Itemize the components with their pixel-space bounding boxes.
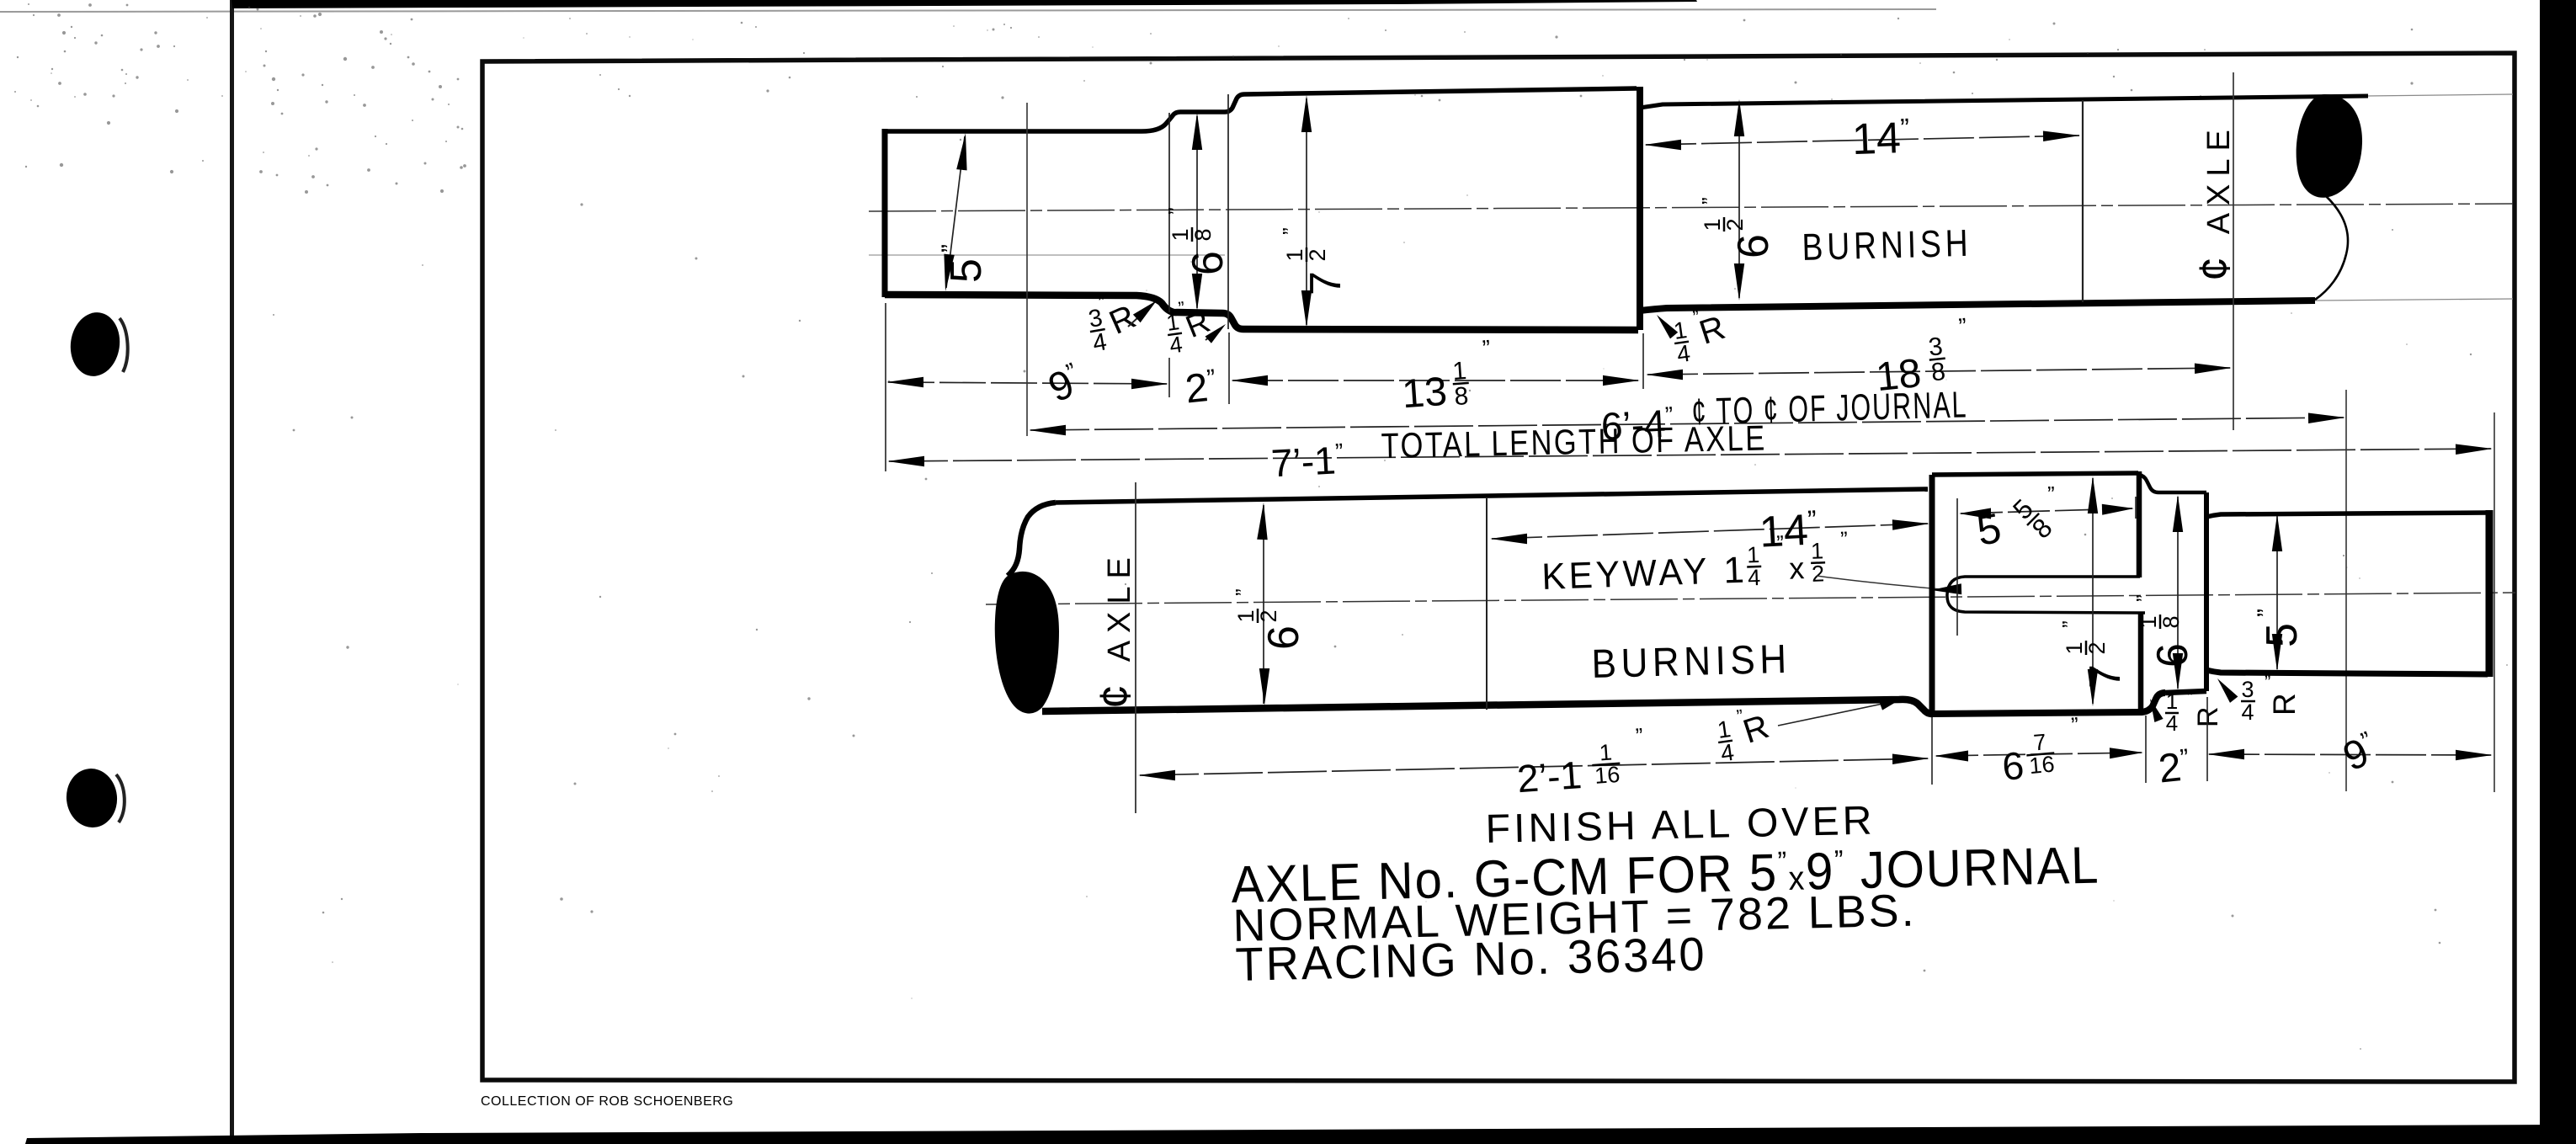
svg-text:2: 2 xyxy=(1305,248,1330,261)
svg-text:”: ” xyxy=(1231,588,1256,596)
dim 13 1/8 wheel seat v1 xyxy=(1231,335,1640,417)
svg-text:R: R xyxy=(2267,693,2302,716)
svg-text:”: ” xyxy=(2057,620,2083,628)
svg-text:8: 8 xyxy=(1453,382,1469,411)
svg-text:KEYWAY: KEYWAY xyxy=(1541,551,1711,598)
extension tick collar right v2 xyxy=(2206,697,2208,781)
view2 journal right end face xyxy=(2486,510,2494,677)
svg-text:6: 6 xyxy=(1729,234,1778,258)
svg-text:7: 7 xyxy=(2081,664,2130,689)
dim 6 1/8 collar v2 xyxy=(2132,495,2197,690)
extension tick 5 5/8 left xyxy=(1956,498,1958,636)
view2 break neck curve xyxy=(1008,503,1056,576)
label centerline AXLE v2 xyxy=(1091,550,1140,709)
top black scan bar xyxy=(232,0,1697,8)
svg-text:TOTAL LENGTH OF AXLE: TOTAL LENGTH OF AXLE xyxy=(1381,418,1767,466)
svg-text:BURNISH: BURNISH xyxy=(1802,221,1972,269)
svg-text:”: ” xyxy=(1776,530,1785,556)
svg-text:13: 13 xyxy=(1401,370,1449,418)
fillet leader arrow 1/4R v1 left xyxy=(1206,324,1227,343)
dim 2in collar v2 xyxy=(2157,744,2192,792)
view2 collar bottom edge xyxy=(2165,691,2206,693)
extension tick 5 5/8 right xyxy=(2135,497,2137,519)
dim 6 1/8 diameter dust guard v1 xyxy=(1163,113,1232,311)
dim 9in journal length v1 xyxy=(886,358,1168,411)
view1 dust guard left boundary xyxy=(1168,113,1170,312)
view2 extension line at 14in end xyxy=(1486,498,1488,710)
svg-text:”: ” xyxy=(1697,197,1722,205)
svg-text:4: 4 xyxy=(2241,700,2254,725)
view1 wheel seat right end face xyxy=(1637,87,1643,330)
svg-text:5: 5 xyxy=(942,258,991,283)
svg-text:”: ” xyxy=(2132,594,2157,602)
dim 14in burnish v1 xyxy=(1644,113,2080,164)
extension tick dust guard right v1 xyxy=(1228,333,1230,404)
dim 6ft4 centre to centre of journal xyxy=(1029,384,2345,448)
svg-text:COLLECTION OF ROB SCHOENBER: COLLECTION OF ROB SCHOENBERG xyxy=(481,1094,733,1109)
view1 top profile: journal, dust guard, wheel seat xyxy=(885,88,1637,131)
svg-text:2’-1: 2’-1 xyxy=(1515,753,1583,801)
centerline of journal v1 xyxy=(1026,103,1028,436)
view2 wheel seat right end face upper xyxy=(2137,471,2142,577)
dim 18 3/8 to axle centre v1 xyxy=(1646,313,2232,400)
svg-text:3: 3 xyxy=(2241,677,2254,702)
svg-text:7’-1”: 7’-1” xyxy=(1270,438,1345,485)
svg-text:”: ” xyxy=(2253,609,2281,617)
view2 wheel seat bottom edge xyxy=(1933,693,2165,714)
dim 7 1/2 wheel seat v2 xyxy=(2057,476,2130,706)
svg-text:8: 8 xyxy=(1929,358,1946,387)
svg-text:”: ” xyxy=(2265,672,2270,693)
svg-text:6: 6 xyxy=(2000,743,2025,789)
svg-text:x: x xyxy=(1789,551,1805,586)
view1 body top edge xyxy=(1640,96,2368,108)
svg-text:1: 1 xyxy=(1700,218,1725,231)
fillet leader arrow 1/4R v1 right xyxy=(1657,315,1678,338)
view2 journal top edge xyxy=(2206,513,2488,517)
view1 wheel seat left boundary xyxy=(1227,94,1229,329)
view1 axle centre extension line xyxy=(2233,72,2234,430)
svg-text:8: 8 xyxy=(2158,615,2184,628)
view2 wheel seat left end face xyxy=(1929,475,1935,713)
svg-text:6: 6 xyxy=(1184,251,1232,275)
keyway leader line xyxy=(1817,576,1961,594)
svg-text:1: 1 xyxy=(1451,357,1467,386)
view1 centerline xyxy=(869,204,2513,211)
fillet label 1/4R v2 body xyxy=(1714,701,1776,766)
fillet label 1/4R v1 left xyxy=(1163,294,1216,359)
fillet leader arrow 3/4R v1 xyxy=(1128,301,1157,327)
view2 keyway slot xyxy=(1947,577,2145,613)
fillet leader arrow 3/4R v2 xyxy=(2217,678,2238,703)
extension tick wheel seat left v2 xyxy=(1931,717,1933,785)
view2 wheel seat top edge xyxy=(1932,473,2138,475)
bottom black scan bar xyxy=(25,1125,2576,1144)
fillet label 3/4R v1 xyxy=(1083,285,1144,357)
svg-text:1: 1 xyxy=(1747,542,1760,568)
svg-text:BURNISH: BURNISH xyxy=(1591,637,1791,687)
extension tick dust guard left v1 xyxy=(1168,358,1170,397)
fillet label 3/4R v2 xyxy=(2241,672,2302,725)
view1 bottom profile: journal, dust guard, wheel seat xyxy=(885,295,1638,330)
dim 5 5/8 v2 xyxy=(1959,482,2134,555)
svg-text:2: 2 xyxy=(1812,561,1825,587)
drawing border frame xyxy=(482,53,2515,1082)
dim 9in journal v2 xyxy=(2207,726,2493,780)
faint scanner line across top xyxy=(0,9,1936,12)
dim 7ft1 total length of axle xyxy=(887,418,2493,485)
paper left edge line xyxy=(230,0,234,1144)
svg-text:2: 2 xyxy=(1256,609,1281,622)
svg-text:1: 1 xyxy=(1233,609,1259,622)
view2 wheel seat right end face lower xyxy=(2138,612,2144,709)
svg-text:16: 16 xyxy=(1594,762,1621,789)
punch hole upper xyxy=(67,309,128,379)
svg-text:”: ” xyxy=(937,244,965,253)
svg-text:4: 4 xyxy=(2166,710,2178,736)
fillet label 1/4R v2 collar xyxy=(2165,687,2224,736)
svg-text:”: ” xyxy=(2187,687,2193,708)
view1 body bottom edge xyxy=(1640,301,2315,311)
extension tick 6ft4 right xyxy=(2345,390,2347,791)
view1 burnish limit line xyxy=(2082,100,2084,302)
dim 5in diameter journal v1 xyxy=(937,133,991,291)
view2 collar right end face xyxy=(2204,492,2209,691)
svg-text:1: 1 xyxy=(1811,538,1824,564)
view2 body bottom edge xyxy=(1042,700,1933,714)
svg-text:TRACING No. 36340: TRACING No. 36340 xyxy=(1235,927,1707,991)
svg-text:”: ” xyxy=(2047,482,2055,507)
extension tick collar left v2 xyxy=(2145,716,2147,783)
svg-text:5: 5 xyxy=(2258,623,2307,647)
svg-text:1: 1 xyxy=(2062,641,2087,654)
view1 journal left end face xyxy=(882,129,888,297)
dim 2in dust guard v1 xyxy=(1183,364,1218,412)
view1 faint top edge continuation xyxy=(2366,94,2513,96)
extension tick journal left v1 xyxy=(885,303,886,471)
view2 collar top edge xyxy=(2139,475,2206,492)
svg-text:7: 7 xyxy=(1301,271,1350,295)
view1 faint construction line xyxy=(869,254,1225,256)
view1 faint bottom edge continuation xyxy=(2315,299,2513,301)
dim 7 1/2 diameter wheel seat v1 xyxy=(1278,95,1350,327)
fillet leader arrow 1/4R v2 collar xyxy=(2150,699,2164,722)
svg-text:6: 6 xyxy=(1259,625,1308,650)
svg-text:2: 2 xyxy=(2084,641,2110,654)
svg-text:16: 16 xyxy=(2028,752,2056,780)
dim 2ft-1-1/16 v2 xyxy=(1138,723,1929,801)
dim 5in journal v2 xyxy=(2253,514,2307,671)
svg-text:”: ” xyxy=(1840,526,1849,551)
svg-text:R: R xyxy=(2192,706,2224,727)
svg-text:1: 1 xyxy=(1168,228,1193,241)
view2 centerline xyxy=(986,593,2515,604)
view1 break S-curve xyxy=(2315,196,2348,300)
dim 6 7/16 v2 xyxy=(1935,712,2143,789)
label centerline AXLE v1 xyxy=(2190,122,2239,281)
view2 journal bottom edge xyxy=(2206,670,2488,674)
svg-text:”: ” xyxy=(1163,207,1189,215)
view2 body top edge xyxy=(1056,489,1928,503)
right black scan band xyxy=(2540,0,2576,1144)
svg-text:8: 8 xyxy=(1190,228,1216,241)
svg-text:1: 1 xyxy=(1723,550,1745,592)
view2 break ink blob xyxy=(995,572,1059,714)
svg-text:”: ” xyxy=(1278,227,1303,235)
view2 centreline AXLE extension xyxy=(1135,482,1136,813)
dim 14in v2 xyxy=(1490,504,1929,557)
svg-text:1: 1 xyxy=(1282,248,1307,261)
svg-text:4: 4 xyxy=(1748,565,1761,591)
view1 break ink blob xyxy=(2297,94,2362,198)
extension tick 7ft1 right xyxy=(2494,412,2495,792)
svg-text:6: 6 xyxy=(2148,643,2197,668)
extension tick wheel seat right v1 xyxy=(1642,333,1644,389)
punch hole lower xyxy=(64,766,125,830)
dim 6 1/2 diameter body v1 xyxy=(1697,99,1778,301)
dim 6 1/2 diameter body v2 xyxy=(1231,503,1308,705)
label KEYWAY v2 xyxy=(1541,526,1850,598)
fillet label 1/4R v1 right xyxy=(1670,302,1732,367)
fillet leader arrow 1/4R v2 body xyxy=(1778,696,1906,726)
svg-text:2: 2 xyxy=(1722,218,1748,231)
svg-text:1: 1 xyxy=(2136,615,2161,628)
